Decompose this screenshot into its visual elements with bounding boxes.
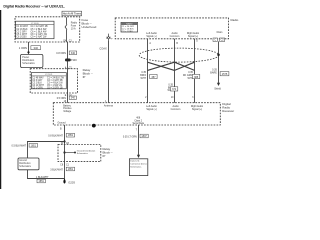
radio pin label Left Audio Signal bbox=[146, 32, 157, 38]
shield drain dot bbox=[217, 54, 220, 57]
audio wire left bbox=[147, 39, 149, 103]
fuse block underhood connector table bbox=[16, 21, 54, 39]
svg-text:Radio: Radio bbox=[231, 18, 239, 22]
receiver pin label 408 Class 2 Serial Data bbox=[133, 118, 145, 126]
wire label 0.35 BRN/WHT bbox=[140, 71, 146, 80]
svg-text:0.5 ORN: 0.5 ORN bbox=[57, 97, 67, 100]
fuse F1 RADIO 10A symbol bbox=[65, 17, 67, 42]
svg-text:P100: P100 bbox=[71, 58, 78, 62]
shield cable ellipse bbox=[139, 48, 219, 62]
svg-text:Common: Common bbox=[171, 108, 181, 111]
ground relay block IP dashed box bbox=[58, 145, 101, 162]
radio connector table bbox=[121, 22, 138, 32]
relay block IP connector table bbox=[31, 73, 66, 90]
svg-text:Hot At All Times: Hot At All Times bbox=[63, 12, 82, 16]
label Digital Radio Receiver bbox=[222, 102, 234, 113]
svg-text:1575: 1575 bbox=[222, 73, 228, 76]
svg-text:C1 40 WAY: C1 40 WAY bbox=[16, 25, 28, 28]
svg-text:C3 = COAX: C3 = COAX bbox=[122, 30, 134, 33]
ground branch junction dot bbox=[63, 140, 65, 142]
label Relay Block IP lower bbox=[103, 147, 113, 158]
svg-text:340: 340 bbox=[71, 52, 76, 55]
svg-text:Ground Distribution: Ground Distribution bbox=[77, 149, 96, 152]
svg-text:Shield: Shield bbox=[214, 87, 221, 90]
svg-text:1807: 1807 bbox=[141, 135, 147, 138]
pin E connector C2 exit relay block bbox=[65, 95, 73, 97]
svg-text:Ground: Ground bbox=[19, 159, 27, 162]
svg-text:Underhood: Underhood bbox=[82, 25, 97, 29]
tag box Hot At All Times bbox=[62, 11, 82, 16]
splice dot on stub bbox=[27, 51, 29, 53]
svg-text:Antenna: Antenna bbox=[104, 105, 114, 108]
receiver pin label Left Audio Signal bbox=[146, 105, 157, 111]
svg-text:Connector (DLC): Connector (DLC) bbox=[130, 163, 146, 166]
svg-text:Schematics: Schematics bbox=[19, 165, 32, 168]
relay block IP dashed box bbox=[30, 69, 77, 93]
splice arrow bbox=[74, 152, 76, 154]
svg-text:C9 = 5 NAT 2W: C9 = 5 NAT 2W bbox=[31, 36, 48, 39]
drain connector box C2 bbox=[220, 38, 225, 42]
ground branch wire left bbox=[28, 142, 65, 159]
svg-text:G203: G203 bbox=[68, 180, 75, 184]
svg-text:1851: 1851 bbox=[39, 180, 45, 183]
svg-text:BARE: BARE bbox=[210, 71, 217, 74]
svg-text:WHT: WHT bbox=[141, 77, 147, 80]
circuit box 340 bbox=[69, 51, 76, 55]
svg-text:Receiver: Receiver bbox=[222, 109, 234, 113]
svg-text:Signal (+): Signal (+) bbox=[146, 35, 157, 38]
receiver pin label Audio Common bbox=[171, 105, 181, 111]
svg-text:1851: 1851 bbox=[31, 144, 37, 147]
page edge border bbox=[0, 10, 2, 189]
reference box Ground Distribution Schematics bbox=[18, 158, 39, 170]
svg-text:388: 388 bbox=[194, 76, 199, 79]
svg-text:387: 387 bbox=[151, 76, 156, 79]
svg-text:IP: IP bbox=[83, 75, 86, 79]
svg-text:Ground: Ground bbox=[58, 121, 67, 124]
fuse value label Radio Fuse 10 A bbox=[71, 22, 78, 31]
svg-text:0.8 ORN: 0.8 ORN bbox=[56, 52, 66, 55]
svg-text:0.8 BLK/WHT: 0.8 BLK/WHT bbox=[48, 135, 63, 138]
circuit box 388 bbox=[192, 74, 199, 78]
pin D4 connector C1 of fuse block bbox=[63, 40, 72, 43]
pin C8 connector C1 exit ground relay block bbox=[60, 164, 69, 166]
splice note Ground Distribution Schematics bbox=[77, 149, 96, 155]
label Fuse Block Underhood bbox=[82, 18, 97, 29]
audio wire common bbox=[174, 39, 176, 103]
circuit box 1575 bbox=[220, 72, 229, 76]
svg-text:Signal (+): Signal (+) bbox=[146, 108, 157, 111]
splice junction dot in relay block bbox=[63, 151, 65, 153]
svg-text:372: 372 bbox=[172, 88, 177, 91]
radio dashed box bbox=[115, 18, 228, 39]
audio wire right bbox=[194, 39, 196, 103]
wire 0.8 ORN 340 fuse block to receiver bbox=[67, 42, 69, 103]
ground wire 0.8 BLK/WHT bbox=[64, 125, 66, 145]
reference box Data Link Connector DLC Schematics bbox=[129, 159, 147, 176]
drain arrowhead bbox=[217, 83, 220, 86]
pin A connector C2 entry of relay block IP bbox=[65, 66, 73, 69]
fuse block underhood dashed box bbox=[15, 17, 80, 42]
svg-text:1 ORN: 1 ORN bbox=[19, 46, 27, 50]
svg-text:Common: Common bbox=[170, 35, 180, 38]
junction dot on receiver bottom edge bbox=[92, 124, 96, 128]
radio pin label Right Audio Signal bbox=[187, 32, 200, 38]
circuit box 1851 lower branch bbox=[37, 179, 45, 183]
splice branch line bbox=[65, 152, 75, 154]
svg-text:1851: 1851 bbox=[68, 134, 74, 137]
ground point G203 bbox=[63, 179, 75, 185]
svg-text:Class 2: Class 2 bbox=[134, 120, 142, 122]
svg-text:Signal (+): Signal (+) bbox=[192, 108, 203, 111]
circuit box 387 bbox=[150, 74, 157, 78]
circuit box 1807 bbox=[140, 134, 148, 138]
circuit box 340 exit bbox=[69, 96, 76, 100]
svg-text:Schematics: Schematics bbox=[22, 62, 35, 65]
drain wire bbox=[218, 41, 220, 83]
ground branch exit wire bbox=[28, 170, 65, 179]
svg-text:Serial Data: Serial Data bbox=[133, 122, 145, 125]
label Relay Block IP bbox=[83, 68, 93, 79]
svg-text:Schematics: Schematics bbox=[130, 165, 141, 168]
drain pin box C bbox=[213, 38, 217, 42]
pin W connector C8 entry ground relay block bbox=[61, 143, 70, 145]
grommet P100 bbox=[65, 58, 77, 62]
svg-text:10 A: 10 A bbox=[71, 28, 76, 31]
class 2 serial data wire bbox=[138, 125, 140, 155]
ground wire through relay block bbox=[64, 145, 66, 181]
circuit box 1851 bbox=[66, 133, 74, 137]
circuit box 1851 branch bbox=[29, 144, 37, 148]
antenna in-line connector symbol bbox=[107, 34, 111, 41]
class 2 arrowhead bbox=[137, 155, 140, 158]
circuit box 1851 lower bbox=[66, 167, 74, 171]
svg-text:3 BLK/WHT: 3 BLK/WHT bbox=[50, 168, 63, 171]
svg-text:Distribution: Distribution bbox=[19, 162, 31, 165]
coax wire bbox=[108, 41, 110, 103]
circuit box 372 bbox=[170, 87, 177, 91]
svg-text:C5 1 GRN: C5 1 GRN bbox=[32, 87, 43, 89]
svg-text:340: 340 bbox=[71, 97, 76, 100]
svg-text:0.5 BLK/WHT: 0.5 BLK/WHT bbox=[11, 145, 26, 148]
svg-text:0.35 LT GRN: 0.35 LT GRN bbox=[123, 136, 137, 139]
receiver pin label Right Audio Signal bbox=[191, 105, 204, 111]
svg-text:1 BLK/WHT: 1 BLK/WHT bbox=[36, 176, 49, 179]
svg-text:Data Link: Data Link bbox=[130, 160, 140, 163]
twisted wires braid bbox=[148, 62, 195, 70]
svg-text:Voltage: Voltage bbox=[63, 110, 72, 113]
svg-text:Digital Radio Receiver -- w/ U: Digital Radio Receiver -- w/ U2K/U2L. bbox=[3, 4, 64, 8]
svg-text:COAX: COAX bbox=[99, 47, 107, 51]
circuit box 340 bbox=[31, 46, 41, 50]
reference box Power Distribution Schematics bbox=[21, 54, 43, 67]
svg-text:C6 JX200: C6 JX200 bbox=[16, 37, 27, 39]
digital radio receiver dashed box bbox=[53, 103, 220, 125]
svg-text:Drain: Drain bbox=[217, 31, 223, 34]
wire 1 ORN 340 stub bbox=[28, 42, 30, 54]
svg-text:340: 340 bbox=[33, 46, 38, 50]
radio pin label Audio Common bbox=[170, 32, 180, 38]
wire label 0.35 BARE bbox=[210, 68, 217, 74]
svg-text:1851: 1851 bbox=[68, 168, 74, 171]
svg-text:Signal (+): Signal (+) bbox=[188, 35, 199, 38]
svg-text:C6 = 3 GRY 1B: C6 = 3 GRY 1B bbox=[47, 87, 63, 89]
svg-text:IP: IP bbox=[103, 154, 106, 158]
receiver pin label Battery Positive Voltage bbox=[63, 104, 72, 113]
svg-text:Schematics: Schematics bbox=[77, 152, 88, 155]
wire label 0.35 DK GRN/WHT bbox=[183, 71, 194, 80]
wire label 0.35 BLK/WHT bbox=[168, 83, 174, 92]
